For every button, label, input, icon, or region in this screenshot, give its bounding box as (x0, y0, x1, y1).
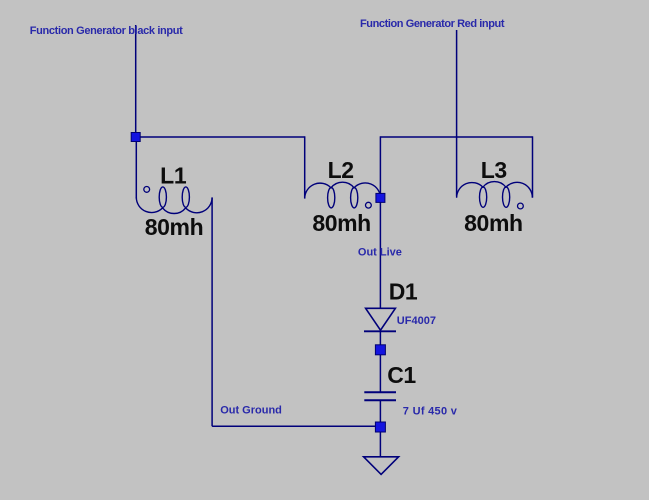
svg-text:80mh: 80mh (145, 214, 203, 240)
inductor L3 (457, 182, 533, 209)
ground (364, 457, 399, 475)
wire: node D down to ground (379, 426, 381, 457)
wire: horizontal rail above L3 (node B to L3 right) (380, 136, 532, 138)
svg-text:Function Generator Red input: Function Generator Red input (360, 18, 505, 30)
svg-text:L1: L1 (160, 162, 187, 188)
wire: black input drop to node A (135, 25, 137, 137)
node D junction square (375, 422, 385, 432)
wire: drop from rail to L3 right terminal (532, 136, 534, 197)
svg-text:C1: C1 (387, 362, 416, 388)
wire: node A to L2 top corner (136, 136, 305, 138)
svg-text:Out Ground: Out Ground (220, 405, 282, 417)
wire: node B down to diode D1 anode (379, 198, 381, 308)
wire: node C to capacitor C1 top plate (379, 350, 381, 393)
svg-text:D1: D1 (389, 278, 418, 304)
svg-text:7 Uf 450 v: 7 Uf 450 v (403, 406, 458, 418)
wire: L1 right terminal down to out-ground rail (211, 198, 213, 427)
inductor L1 (136, 187, 212, 214)
inductor L2 (305, 182, 381, 208)
wire: diode cathode to node C (379, 331, 381, 349)
svg-text:80mh: 80mh (312, 210, 370, 236)
wire: out ground horizontal rail (212, 425, 380, 427)
svg-text:UF4007: UF4007 (397, 315, 436, 327)
wire: corner down to L2 left terminal (304, 136, 306, 198)
diode D1 (364, 308, 396, 331)
node B junction square (376, 193, 385, 202)
wire: capacitor bottom plate to node D (379, 400, 381, 426)
svg-text:L2: L2 (328, 157, 354, 183)
wire: drop from rail to node B (379, 136, 381, 198)
svg-text:Out Live: Out Live (358, 247, 402, 259)
node C junction square (375, 345, 385, 355)
wire: node A down to L1 left terminal (135, 137, 137, 199)
svg-text:L3: L3 (481, 157, 507, 183)
svg-text:Function Generator black input: Function Generator black input (30, 25, 183, 37)
node A junction square (131, 133, 140, 142)
svg-text:80mh: 80mh (464, 210, 522, 236)
capacitor C1 (364, 392, 396, 400)
wire: red input drop to L3 left terminal (456, 30, 458, 197)
